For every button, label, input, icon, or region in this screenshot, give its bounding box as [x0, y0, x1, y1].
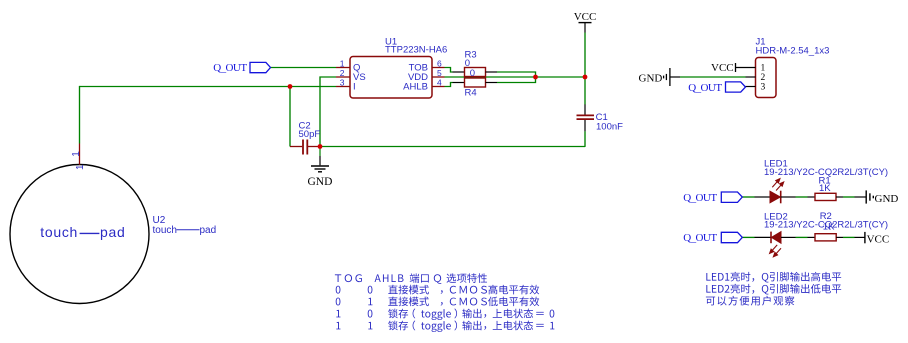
svg-text:1: 1: [75, 164, 86, 170]
power GND symbol right: [865, 190, 867, 203]
power VCC symbol: [579, 22, 592, 24]
wire C1 bottom to bottom net: [584, 131, 586, 147]
LED1 lead right: [781, 196, 796, 198]
wire bottom net C2 to C1: [320, 146, 585, 148]
IC U1 pin 3 stub: [336, 86, 350, 88]
LED1 lead left: [755, 196, 771, 198]
IC U1 pin 5 stub: [432, 76, 445, 78]
wire Q_OUT to LED2: [742, 236, 754, 238]
svg-text:R4: R4: [465, 87, 477, 98]
connector J1 pin 2 lead: [746, 76, 756, 78]
svg-text:3: 3: [761, 82, 766, 92]
touch-pad U2 pin 1: [79, 144, 81, 165]
svg-text:VCC: VCC: [711, 62, 734, 74]
wire touch-pad vertical: [79, 86, 81, 144]
svg-text:VCC: VCC: [867, 233, 890, 245]
port Q_OUT symbol at J1 pin3: [726, 82, 746, 92]
LED2 lead right: [781, 236, 796, 238]
resistor R1 lead left: [808, 196, 816, 198]
op-amp/IC U1 body: [350, 57, 432, 99]
svg-text:VCC: VCC: [574, 11, 597, 23]
svg-text:HDR-M-2.54_1x3: HDR-M-2.54_1x3: [756, 45, 830, 56]
resistor R4 lead left: [453, 82, 465, 84]
connector J1 pin 1 lead: [736, 67, 756, 69]
ground GND bars: [311, 165, 329, 167]
capacitor C1 lead bottom: [584, 120, 586, 131]
svg-text:2: 2: [340, 68, 345, 78]
note text LED behaviour: [706, 272, 841, 306]
port Q_OUT symbol (LED1): [721, 192, 742, 202]
svg-text:3: 3: [340, 77, 345, 87]
svg-text:1K: 1K: [819, 183, 831, 194]
svg-text:AHLB: AHLB: [403, 81, 428, 92]
junction at C2 / GND / bottom net: [318, 144, 323, 149]
connector J1 pin 3 lead: [746, 86, 756, 88]
svg-text:2: 2: [761, 73, 766, 83]
svg-text:TTP223N-HA6: TTP223N-HA6: [385, 45, 447, 56]
wire stub to VCC right: [855, 236, 865, 238]
ground GND stem: [319, 147, 321, 157]
capacitor C2 plates: [302, 140, 304, 155]
IC U1 pin 4 stub: [432, 86, 445, 88]
node options table TOG/AHLB: [335, 273, 555, 332]
resistor R3 lead right: [486, 71, 498, 73]
wire Q_OUT to LED1: [742, 196, 754, 198]
svg-text:I: I: [353, 81, 356, 92]
wire junction branch down to C2: [289, 87, 291, 147]
wire R3 right to VDD net: [497, 72, 536, 83]
resistor R4 lead right: [486, 82, 498, 84]
wire LED1 to R1: [796, 196, 808, 198]
resistor R2 lead left: [808, 236, 816, 238]
svg-text:Q_OUT: Q_OUT: [683, 232, 717, 244]
svg-text:1: 1: [761, 63, 766, 73]
svg-text:pad: pad: [100, 224, 125, 240]
LED1 cathode bar: [780, 191, 782, 204]
wire U1 pin2 to C2 junction (net VS): [320, 77, 336, 147]
svg-text:0: 0: [470, 68, 475, 79]
IC U1 pin 2 stub: [336, 76, 350, 78]
svg-text:touch: touch: [40, 224, 78, 240]
svg-text:6: 6: [437, 58, 442, 68]
LED2 diode triangle: [771, 232, 781, 244]
capacitor C1 lead top: [584, 104, 586, 114]
resistor R3 body: [465, 68, 486, 77]
resistor R4 body: [465, 78, 486, 87]
IC U1 pin 1 stub: [336, 67, 350, 69]
svg-text:50pF: 50pF: [299, 129, 321, 140]
capacitor C1 plates: [577, 114, 595, 116]
wire VCC rail down: [584, 33, 586, 105]
svg-text:Q_OUT: Q_OUT: [688, 82, 722, 94]
svg-text:1K: 1K: [823, 221, 835, 232]
LED2 cathode bar: [770, 232, 772, 244]
LED2 emission arrows: [770, 245, 781, 257]
svg-text:Q_OUT: Q_OUT: [683, 192, 717, 204]
resistor R2 lead right: [836, 236, 843, 238]
resistor R2 body: [815, 234, 836, 241]
touch-pad U2 circle: [10, 165, 149, 304]
IC U1 pin 6 stub: [432, 67, 445, 69]
junction at VCC rail: [583, 75, 588, 80]
svg-text:touch: touch: [153, 225, 177, 236]
junction at touch-pad net / C2 branch: [288, 84, 293, 89]
LED2 lead left: [755, 236, 772, 238]
svg-text:4: 4: [437, 77, 442, 87]
wire U1 pin4 jog to R4: [445, 83, 453, 87]
connector J1 body: [756, 58, 777, 98]
svg-text:1: 1: [340, 58, 345, 68]
svg-text:R2: R2: [820, 211, 832, 222]
wire Q_OUT to U1 pin1: [271, 67, 337, 69]
wire R2 to VCC: [843, 236, 855, 238]
port Q_OUT symbol (to U1): [250, 62, 271, 72]
svg-text:GND: GND: [639, 72, 663, 84]
svg-text:pad: pad: [200, 225, 217, 236]
wire stub to GND right: [855, 196, 866, 198]
LED1 emission arrows: [772, 179, 783, 191]
resistor R3 lead left: [453, 71, 465, 73]
wire LED2 to R2: [796, 236, 808, 238]
svg-text:GND: GND: [875, 193, 899, 205]
resistor R1 body: [815, 193, 836, 200]
power VCC symbol right: [864, 232, 866, 243]
svg-text:5: 5: [437, 68, 442, 78]
junction at R3-R4 join: [533, 75, 538, 80]
capacitor C2 lead left: [290, 146, 302, 148]
svg-text:Q_OUT: Q_OUT: [213, 62, 247, 74]
svg-text:1: 1: [71, 151, 82, 157]
wire U1 pin5 VDD net to VCC: [445, 76, 586, 78]
wire GND port to J1 pin2: [680, 76, 746, 78]
port Q_OUT symbol (LED2): [721, 232, 742, 242]
wire U1 pin6 jog to R3: [445, 68, 453, 73]
capacitor C2 lead right: [308, 146, 318, 148]
svg-text:100nF: 100nF: [596, 122, 623, 133]
resistor R1 lead right: [836, 196, 843, 198]
wire R1 to GND: [843, 196, 855, 198]
LED1 diode triangle: [770, 191, 780, 203]
wire touch-pad to U1 pin3 (net I): [80, 86, 337, 88]
svg-text:GND: GND: [308, 176, 333, 188]
